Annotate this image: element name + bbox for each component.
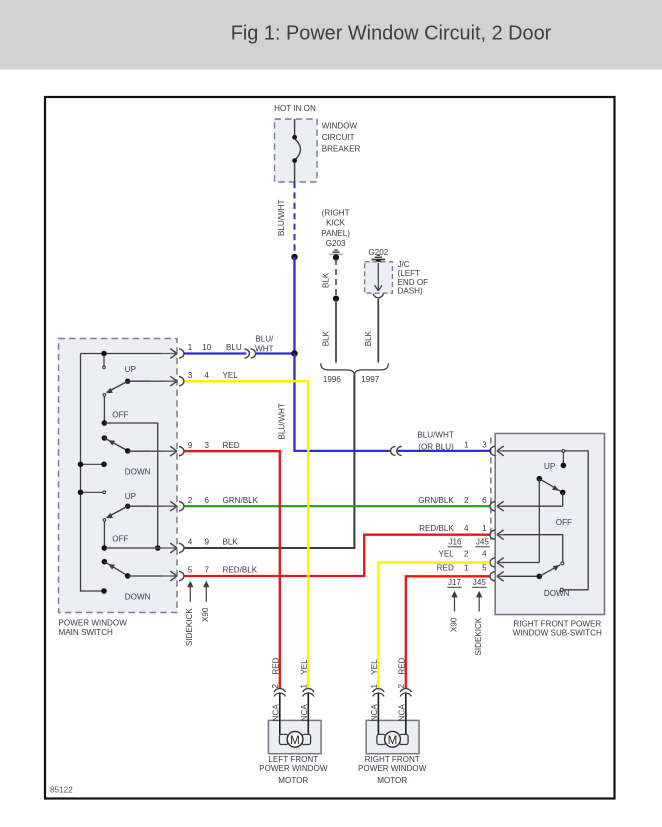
- svg-text:2: 2: [188, 496, 193, 505]
- svg-text:RED: RED: [271, 657, 280, 674]
- left motor box: [268, 720, 321, 753]
- svg-text:2: 2: [397, 684, 406, 689]
- bus bottom junction: [101, 588, 107, 594]
- right front power window sub-switch box: [495, 434, 604, 615]
- main switch RED row internal wire: [128, 450, 162, 452]
- main switch row1 edge connector: [160, 353, 177, 355]
- OFF junction switch2: [102, 545, 108, 551]
- switch1 lower contact: [102, 435, 108, 441]
- wire BLK merged to switch: [184, 375, 354, 548]
- svg-text:1997: 1997: [361, 375, 380, 384]
- main switch row6 edge connector: [150, 575, 177, 577]
- junction below G202: [375, 260, 381, 266]
- svg-text:UP: UP: [125, 492, 136, 501]
- svg-text:BLK: BLK: [321, 330, 330, 346]
- diagram frame: [45, 97, 615, 799]
- right motor box: [366, 720, 419, 753]
- svg-text:BLK: BLK: [223, 538, 239, 547]
- svg-text:5: 5: [188, 566, 193, 575]
- sub-switch row2 edge connector: [490, 502, 495, 511]
- svg-text:YEL: YEL: [300, 659, 309, 675]
- sub-switch RED internal wire: [503, 575, 540, 577]
- sub-switch row4 edge connector: [490, 558, 495, 567]
- svg-text:(RIGHT: (RIGHT: [322, 209, 350, 218]
- DOWN contact stub switch1: [81, 463, 105, 465]
- title banner: [0, 0, 662, 70]
- svg-text:2: 2: [464, 496, 469, 505]
- svg-text:PANEL): PANEL): [321, 229, 350, 238]
- svg-text:M: M: [290, 734, 300, 747]
- svg-text:3: 3: [482, 441, 487, 450]
- svg-text:J45: J45: [473, 578, 487, 587]
- junction RED/BLK row arm: [125, 573, 131, 579]
- svg-text:(LEFT: (LEFT: [398, 269, 421, 278]
- wire YEL to left motor: [184, 381, 308, 688]
- motor M left front: [279, 734, 288, 744]
- sub-switch row3 edge connector: [490, 530, 495, 539]
- svg-text:BREAKER: BREAKER: [322, 144, 361, 153]
- svg-text:BLU/WHT: BLU/WHT: [417, 431, 453, 440]
- UP contact ring switch1: [103, 366, 106, 369]
- harness arrow left 2: [205, 587, 207, 602]
- wire BLU/WHT solid to main switch node: [293, 257, 295, 354]
- svg-text:CIRCUIT: CIRCUIT: [322, 133, 355, 142]
- sub-switch row1 edge connector: [490, 446, 495, 455]
- svg-text:1: 1: [464, 564, 469, 573]
- UP contact junction sub: [561, 463, 567, 469]
- junction node BLU at main switch row: [291, 350, 297, 356]
- svg-text:6: 6: [205, 496, 210, 505]
- svg-text:GRN/BLK: GRN/BLK: [223, 496, 259, 505]
- svg-text:7: 7: [205, 566, 210, 575]
- wire BLK dashed from G203: [335, 259, 337, 297]
- svg-text:WINDOW SUB-SWITCH: WINDOW SUB-SWITCH: [513, 629, 602, 638]
- inline connector pair on BLU: [245, 349, 250, 358]
- svg-text:NCA: NCA: [300, 704, 309, 722]
- harness arrow right 2: [478, 597, 480, 612]
- svg-text:1: 1: [370, 684, 379, 689]
- motor lead wire: [279, 693, 281, 735]
- svg-text:RED: RED: [223, 441, 240, 450]
- svg-text:9: 9: [188, 441, 193, 450]
- svg-text:X90: X90: [201, 607, 210, 622]
- svg-text:OFF: OFF: [556, 518, 572, 527]
- main switch bus wire: [81, 354, 105, 592]
- svg-text:NCA: NCA: [397, 704, 406, 722]
- junction below G203: [333, 254, 339, 260]
- ground G203: [334, 249, 337, 251]
- svg-text:J45: J45: [476, 538, 490, 547]
- wire RED sub to right motor: [406, 576, 490, 688]
- OFF link junction on BLK row: [155, 545, 161, 551]
- svg-text:BLU/WHT: BLU/WHT: [278, 403, 287, 439]
- circuit breaker CB1 symbol: [294, 119, 296, 136]
- UP contact stub switch1: [103, 355, 105, 366]
- svg-text:1: 1: [482, 524, 487, 533]
- svg-text:KICK: KICK: [326, 219, 345, 228]
- arm to GRN row wire: [562, 492, 564, 506]
- harness arrow left 1: [189, 587, 191, 602]
- svg-text:DOWN: DOWN: [125, 467, 151, 476]
- svg-text:SIDEKICK: SIDEKICK: [185, 608, 194, 646]
- wire RED/BLK to sub-switch: [184, 535, 489, 576]
- svg-text:BLU/WHT: BLU/WHT: [277, 200, 286, 236]
- svg-text:SIDEKICK: SIDEKICK: [474, 617, 483, 655]
- sub-switch connector dashed edge: [490, 438, 492, 541]
- svg-text:RED: RED: [437, 564, 454, 573]
- circuit breaker box: [275, 119, 318, 182]
- switch2 pivot ring: [103, 519, 106, 522]
- svg-text:3: 3: [205, 441, 210, 450]
- main switch row2 edge connector: [150, 380, 177, 382]
- svg-text:POWER WINDOW: POWER WINDOW: [59, 619, 128, 628]
- wire BLK 1997 solid: [377, 299, 379, 363]
- motor lead wire: [377, 693, 379, 735]
- junction on BLK 1996: [333, 296, 339, 302]
- svg-text:MOTOR: MOTOR: [377, 776, 407, 785]
- svg-text:UP: UP: [125, 365, 136, 374]
- svg-text:M: M: [388, 734, 398, 747]
- UP contact ring switch2: [103, 491, 106, 494]
- svg-text:1: 1: [188, 343, 193, 352]
- svg-text:MAIN SWITCH: MAIN SWITCH: [59, 628, 114, 637]
- svg-text:POWER WINDOW: POWER WINDOW: [358, 764, 427, 773]
- svg-text:(OR BLU): (OR BLU): [418, 443, 454, 452]
- brace 1996/1997: [321, 363, 389, 375]
- svg-text:BLU/: BLU/: [255, 334, 274, 343]
- svg-text:1996: 1996: [323, 375, 342, 384]
- wire YEL sub to right motor: [378, 563, 489, 689]
- svg-text:2: 2: [271, 684, 280, 689]
- UP contact stub switch2: [81, 491, 103, 493]
- DOWN contact ring sub: [560, 588, 563, 591]
- junction connector J/C box: [365, 262, 393, 293]
- svg-text:85122: 85122: [50, 786, 73, 795]
- wire BLU row segment: [184, 352, 246, 354]
- svg-text:Fig 1: Power Window Circuit, 2: Fig 1: Power Window Circuit, 2 Door: [231, 22, 552, 44]
- wire BLU row segment 2: [255, 352, 294, 354]
- switch2 pivot to OFF wire: [103, 522, 105, 547]
- svg-text:YEL: YEL: [223, 371, 239, 380]
- switch2 lower arm to RED/BLK row: [104, 562, 127, 576]
- svg-text:J16: J16: [448, 538, 462, 547]
- main switch row4 edge connector: [150, 505, 177, 507]
- connector cup under J/C: [373, 294, 383, 298]
- svg-text:YEL: YEL: [438, 550, 454, 559]
- svg-text:6: 6: [482, 496, 487, 505]
- svg-text:MOTOR: MOTOR: [278, 776, 308, 785]
- wire GRN/BLK to sub-switch: [184, 505, 489, 507]
- svg-text:NCA: NCA: [271, 704, 280, 722]
- wire BLU/WHT dashed from breaker: [294, 182, 296, 255]
- sub pivot to YEL wire: [538, 479, 540, 563]
- svg-text:RIGHT FRONT POWER: RIGHT FRONT POWER: [513, 619, 601, 628]
- junction on BLU/WHT at G-split: [291, 254, 297, 260]
- svg-text:10: 10: [202, 343, 212, 352]
- svg-text:DOWN: DOWN: [544, 589, 570, 598]
- svg-text:LEFT FRONT: LEFT FRONT: [268, 755, 318, 764]
- junction RED row arm: [125, 448, 131, 454]
- OFF link wire to BLK row: [104, 423, 157, 548]
- svg-text:BLU: BLU: [226, 343, 242, 352]
- sub switch arm UP: [539, 479, 560, 492]
- switch1 pivot to OFF wire: [103, 397, 105, 422]
- harness arrow right 1: [454, 597, 456, 612]
- svg-text:9: 9: [205, 538, 210, 547]
- UP contact stub sub: [562, 452, 564, 463]
- wire BLU/WHT to sub-switch pin: [398, 450, 490, 452]
- inline connector on BLU/WHT pair: [391, 446, 396, 455]
- svg-text:2: 2: [464, 550, 469, 559]
- motor lead connector (RED 2): [400, 689, 411, 693]
- arm junction GRN: [560, 490, 566, 496]
- sub-switch BLU internal wire: [503, 451, 589, 590]
- svg-text:BLK: BLK: [364, 330, 373, 346]
- power window main switch box: [59, 339, 178, 613]
- UP stub ring sub: [562, 450, 565, 453]
- svg-text:3: 3: [188, 371, 193, 380]
- switch1 lower arm to RED row: [104, 438, 127, 451]
- svg-text:RED: RED: [397, 657, 406, 674]
- svg-text:4: 4: [482, 550, 487, 559]
- OFF junction switch1: [102, 420, 108, 426]
- sub-switch YEL internal wire: [503, 562, 540, 564]
- svg-text:J17: J17: [448, 578, 462, 587]
- svg-text:POWER WINDOW: POWER WINDOW: [259, 764, 328, 773]
- svg-text:WINDOW: WINDOW: [322, 122, 358, 131]
- motor M right front: [377, 734, 386, 744]
- motor lead connector (YEL 1): [303, 689, 314, 693]
- svg-text:END OF: END OF: [398, 278, 429, 287]
- switch2 lower contact: [102, 559, 108, 565]
- svg-text:1: 1: [300, 684, 309, 689]
- svg-text:YEL: YEL: [370, 659, 379, 675]
- DOWN stub junctions: [78, 462, 84, 468]
- svg-text:5: 5: [482, 564, 487, 573]
- switch1 arm to YEL row: [125, 379, 130, 384]
- svg-text:RED/BLK: RED/BLK: [419, 524, 454, 533]
- svg-text:4: 4: [188, 538, 193, 547]
- svg-text:4: 4: [464, 524, 469, 533]
- svg-text:BLK: BLK: [321, 272, 330, 288]
- svg-text:J/C: J/C: [398, 260, 410, 269]
- svg-text:X90: X90: [450, 617, 459, 632]
- switch2 arm to GRN row: [125, 504, 130, 509]
- svg-text:DOWN: DOWN: [125, 593, 151, 602]
- main switch BLK row internal wire: [104, 547, 162, 549]
- svg-text:GRN/BLK: GRN/BLK: [418, 496, 454, 505]
- main switch YEL row internal wire: [128, 380, 162, 382]
- motor lead wire: [405, 693, 407, 735]
- motor lead connector (YEL 1): [373, 689, 384, 693]
- main switch row5 edge connector: [150, 547, 177, 549]
- motor lead connector (RED 2): [274, 689, 285, 693]
- main switch RED/BLK row internal wire: [128, 575, 162, 577]
- svg-text:4: 4: [205, 371, 210, 380]
- svg-text:OFF: OFF: [112, 535, 128, 544]
- sub switch arm DOWN: [539, 565, 560, 577]
- motor lead wire: [307, 693, 309, 735]
- wire BLK 1996 solid: [335, 299, 337, 363]
- svg-text:G203: G203: [326, 239, 346, 248]
- sub switch lower contact: [537, 574, 543, 580]
- svg-text:OFF: OFF: [112, 410, 128, 419]
- main switch pin row 1 internal wire: [81, 353, 163, 355]
- main switch row3 edge connector: [150, 450, 177, 452]
- J/C internal arrow: [377, 263, 379, 290]
- UP stub junction switch2: [78, 490, 84, 496]
- svg-text:HOT IN ON: HOT IN ON: [274, 104, 316, 113]
- svg-text:DASH): DASH): [398, 287, 423, 296]
- svg-text:RED/BLK: RED/BLK: [223, 566, 258, 575]
- main switch GRN row internal wire: [128, 505, 162, 507]
- junction row1: [101, 351, 107, 357]
- svg-text:RIGHT FRONT: RIGHT FRONT: [365, 755, 420, 764]
- sub switch pivot: [537, 476, 543, 482]
- ground G202: [377, 254, 380, 256]
- wire BLU down to sub-switch row: [295, 354, 391, 451]
- wire RED to left motor: [184, 451, 279, 688]
- switch1 pivot ring: [103, 394, 106, 397]
- sub-switch row5 edge connector: [490, 572, 495, 581]
- sub-switch RED/BLK internal wire: [503, 535, 563, 562]
- svg-text:1: 1: [464, 441, 469, 450]
- svg-text:UP: UP: [544, 462, 555, 471]
- sub-switch GRN internal wire: [503, 505, 563, 507]
- svg-text:NCA: NCA: [370, 704, 379, 722]
